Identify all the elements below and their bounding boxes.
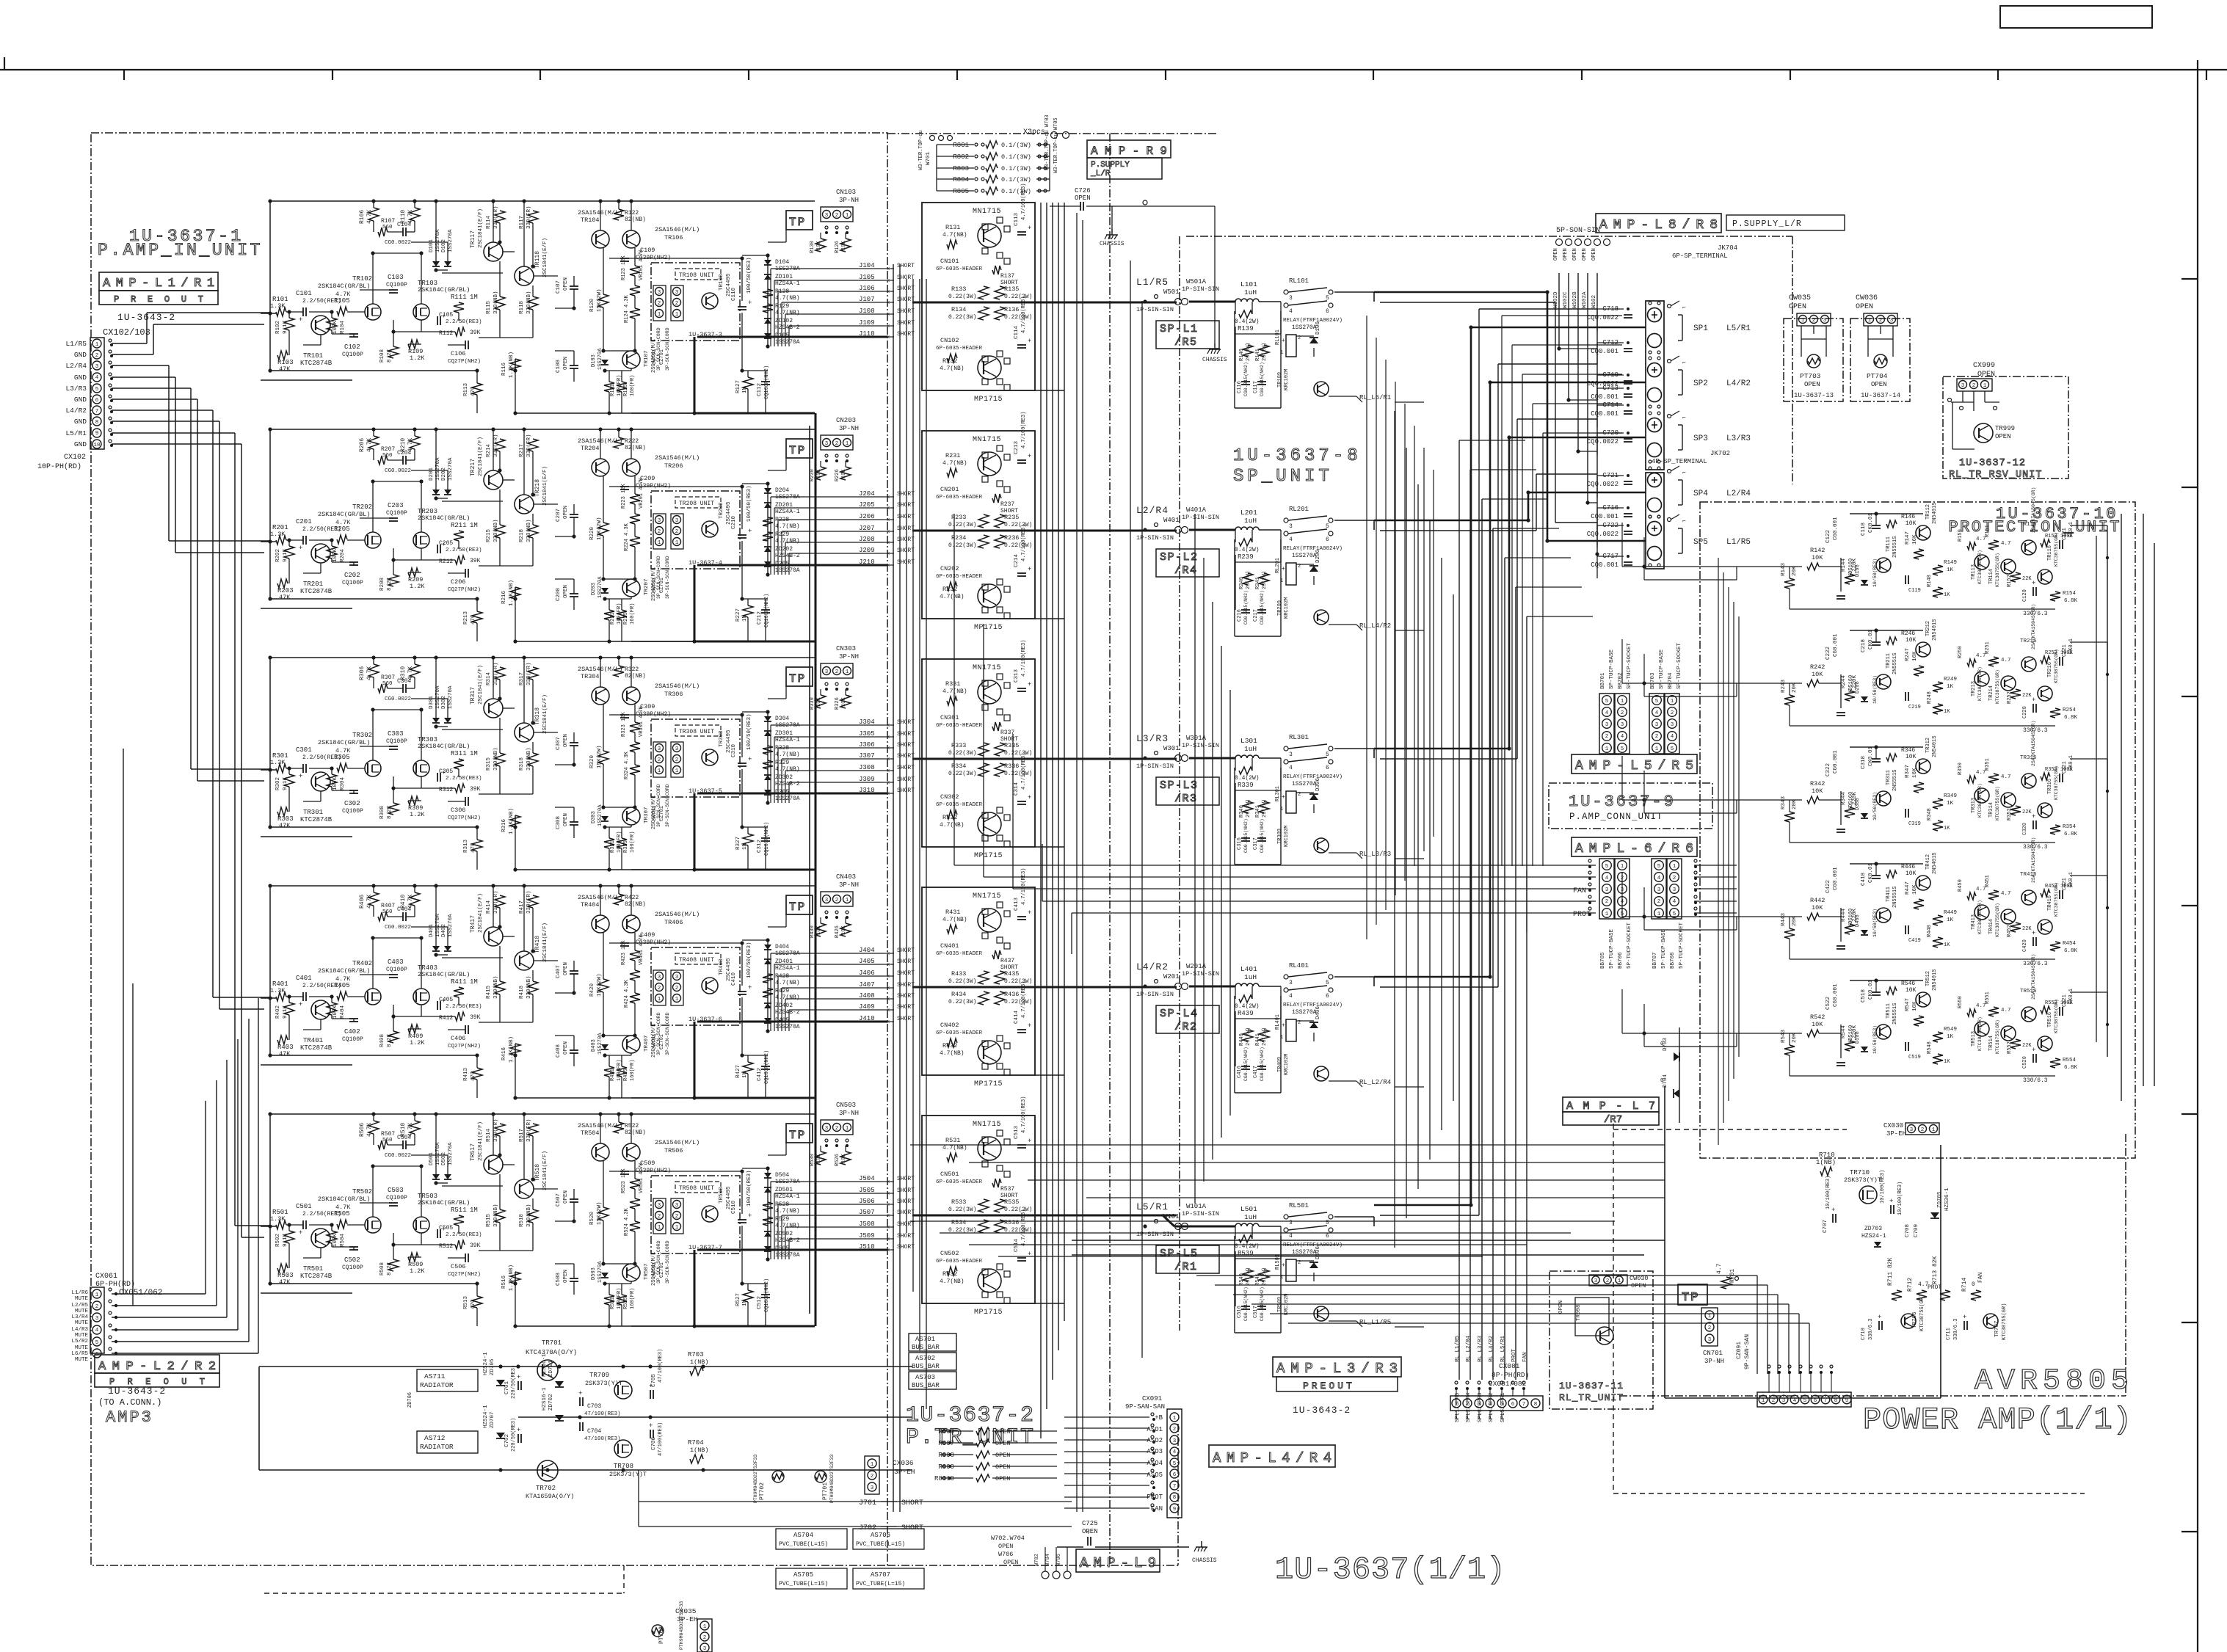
svg-text:KTC2874B: KTC2874B [300,816,333,823]
svg-text:R120: R120 [589,298,595,312]
svg-text:CW701: CW701 [652,349,658,365]
svg-text:CZ701: CZ701 [659,349,665,365]
svg-text:2: 2 [835,213,839,219]
svg-text:+: + [299,316,302,324]
svg-text:KDS160: KDS160 [1848,675,1854,694]
svg-text:⌐: ⌐ [1682,305,1686,311]
svg-text:10/100(RE3): 10/100(RE3) [1825,1176,1831,1209]
svg-text:4.7/100(RE3): 4.7/100(RE3) [1021,412,1027,448]
svg-text:1U-3637-4: 1U-3637-4 [689,559,722,567]
svg-text:L4/R2: L4/R2 [65,407,87,415]
svg-text:C701: C701 [504,1380,510,1394]
svg-text:TR217: TR217 [470,459,476,476]
svg-text:L2/R4: L2/R4 [1726,490,1751,498]
svg-text:R148: R148 [1927,575,1933,587]
svg-text:L5/R2: L5/R2 [71,1339,88,1344]
svg-text:MUTE: MUTE [75,1357,89,1363]
svg-text:CN502: CN502 [940,1250,959,1257]
svg-text:C303: C303 [388,730,404,738]
svg-text:4.7(NB): 4.7(NB) [940,365,964,372]
svg-text:R222: R222 [625,438,639,445]
svg-text:4.7/100(RE3): 4.7/100(RE3) [1021,640,1027,677]
svg-text:AS701: AS701 [915,1336,935,1343]
svg-text:1U-3637-3: 1U-3637-3 [689,331,722,338]
svg-text:R809: R809 [938,1463,954,1471]
svg-text:ZD702: ZD702 [548,1394,554,1411]
svg-text:1K: 1K [1947,684,1954,690]
svg-text:RADIATOR: RADIATOR [420,1443,454,1451]
svg-text:2: 2 [1879,318,1883,324]
svg-text:x: x [887,300,890,306]
svg-text:D402: D402 [441,924,447,937]
svg-text:C319: C319 [1908,821,1921,827]
svg-text:C118: C118 [1861,523,1867,536]
svg-text:PROT: PROT [1573,911,1591,919]
svg-text:8.2K: 8.2K [387,577,393,591]
svg-text:x: x [887,529,890,535]
svg-text:R240: R240 [1239,577,1245,589]
svg-text:330(NB): 330(NB) [526,291,532,314]
svg-text:x: x [887,962,890,968]
svg-text:KTC3875S(GR): KTC3875S(GR) [2002,1303,2008,1340]
svg-text:470: 470 [471,843,476,853]
svg-text:OPEN: OPEN [1572,248,1578,261]
svg-text:20(2W): 20(2W) [1262,571,1268,589]
svg-text:1M: 1M [742,1299,748,1306]
svg-text:KTC3875S(GR): KTC3875S(GR) [2054,532,2059,567]
svg-text:1: 1 [1708,1314,1712,1320]
svg-text:330(NB): 330(NB) [493,975,499,999]
svg-text:4: 4 [95,375,99,381]
svg-text:D208: D208 [1855,681,1861,694]
svg-text:AMP3: AMP3 [106,1408,153,1427]
svg-text:J509: J509 [859,1232,875,1240]
svg-text:+: + [2032,696,2035,704]
svg-text:BB708: BB708 [1670,952,1676,969]
svg-text:0.22(3W): 0.22(3W) [948,542,976,549]
svg-text:4: 4 [1289,1233,1293,1240]
svg-text:/R3: /R3 [1174,793,1198,805]
svg-text:R137: R137 [1000,273,1014,280]
svg-text:KTC4370A(O/Y): KTC4370A(O/Y) [526,1349,577,1356]
svg-text:R206: R206 [359,438,366,452]
svg-text:1SS270A: 1SS270A [1292,1009,1317,1016]
svg-text:2SA1546(M/L): 2SA1546(M/L) [655,1139,700,1146]
svg-text:KTC2874B: KTC2874B [300,1273,333,1280]
svg-text:9.1K: 9.1K [283,548,288,562]
svg-text:3: 3 [825,898,829,903]
svg-text:3: 3 [95,1316,99,1322]
svg-text:C121: C121 [2062,528,2068,540]
svg-text:TR513: TR513 [1971,1031,1977,1047]
svg-text:x: x [887,791,890,797]
svg-text:KTC3875S(GR): KTC3875S(GR) [1995,669,2000,704]
svg-text:1SS270A: 1SS270A [448,457,454,481]
svg-text:R418: R418 [519,986,525,999]
svg-text:1K: 1K [1947,917,1954,923]
svg-text:1(NB): 1(NB) [690,1447,709,1454]
svg-text:VR101 4.7K: VR101 4.7K [639,249,644,280]
svg-text:CZ701: CZ701 [659,806,665,821]
svg-text:x: x [887,1008,890,1014]
svg-text:x: x [887,1179,890,1185]
svg-text:470: 470 [471,386,476,396]
svg-text:FAN: FAN [1522,1352,1528,1362]
svg-text:0.22(3W): 0.22(3W) [1004,999,1032,1005]
svg-text:SP-L3: SP-L3 [1160,779,1199,792]
svg-text:R520: R520 [589,1211,595,1225]
svg-text:6: 6 [1511,1402,1515,1408]
svg-text:PTH9M04BD22TS2F33: PTH9M04BD22TS2F33 [829,1455,835,1503]
svg-text:J208: J208 [859,536,875,543]
svg-text:D505: D505 [775,1245,789,1252]
svg-text:C417: C417 [1253,1066,1259,1078]
svg-text:4.7K: 4.7K [407,210,414,224]
svg-text:6P-6035-HEADER: 6P-6035-HEADER [936,495,983,501]
svg-text:+: + [748,528,752,535]
svg-text:CG0.001: CG0.001 [1833,517,1839,540]
svg-text:R114: R114 [486,215,492,229]
svg-text:1: 1 [1868,318,1872,324]
svg-text:39K: 39K [470,1014,481,1021]
svg-text:+: + [299,773,302,780]
svg-text:16K: 16K [1912,1001,1918,1011]
svg-text:TR102: TR102 [352,275,372,283]
svg-text:330(NB): 330(NB) [526,975,532,999]
svg-text:2: 2 [675,757,679,763]
svg-text:POWER AMP(1/1): POWER AMP(1/1) [1863,1402,2132,1438]
svg-text:C207: C207 [556,509,562,522]
svg-text:TR706: TR706 [1912,1311,1918,1328]
svg-text:TR204: TR204 [581,445,600,452]
svg-text:J507: J507 [859,1209,875,1216]
svg-text:100/50(RE3): 100/50(RE3) [746,1170,752,1207]
svg-text:C212: C212 [757,611,763,625]
svg-text:R252: R252 [2007,691,2013,704]
svg-text:R307: R307 [381,674,395,681]
svg-text:KTC3875S(GR): KTC3875S(GR) [1995,786,2000,820]
svg-text:R246: R246 [1901,630,1915,637]
svg-text:R329: R329 [775,760,789,766]
svg-text:TR506: TR506 [664,1147,683,1154]
svg-text:5: 5 [1621,911,1624,917]
svg-text:1K: 1K [1944,709,1950,715]
svg-text:4: 4 [1605,876,1609,881]
svg-text:OPEN: OPEN [563,813,569,826]
svg-text:TR214: TR214 [1988,685,1994,701]
svg-text:R407: R407 [381,903,395,909]
svg-text:1: 1 [1932,1127,1936,1133]
svg-text:4: 4 [1671,734,1674,740]
svg-text:TR518: TR518 [534,1164,541,1182]
svg-text:ZD701: ZD701 [548,1360,554,1377]
svg-text:4: 4 [1289,993,1293,1000]
svg-text:5P-TUCP-BASE: 5P-TUCP-BASE [1609,928,1615,969]
svg-text:MN1715: MN1715 [973,664,1001,672]
svg-text:D104: D104 [775,259,789,266]
svg-text:+: + [1086,1529,1090,1537]
svg-text:10P-PH(RD): 10P-PH(RD) [37,462,81,471]
svg-text:R210: R210 [400,438,407,452]
svg-text:CG0.001: CG0.001 [1833,983,1839,1007]
svg-text:CG0.0022: CG0.0022 [385,1153,411,1159]
svg-text:4.7(NB): 4.7(NB) [775,766,800,773]
svg-text:20(2W): 20(2W) [1246,1267,1251,1286]
svg-text:R426: R426 [835,925,840,938]
svg-text:R404: R404 [340,1005,346,1019]
svg-text:1P-SIN-SIN: 1P-SIN-SIN [1182,970,1219,978]
svg-text:2SC1841(E/F): 2SC1841(E/F) [478,893,484,933]
svg-text:TR107: TR107 [644,350,650,367]
svg-text:10/100(RE3): 10/100(RE3) [1880,1170,1886,1204]
svg-text:CG0.0022: CG0.0022 [385,240,411,246]
svg-text:J404: J404 [859,947,875,954]
svg-text:OPEN: OPEN [1995,433,2011,440]
svg-text:R302: R302 [275,777,281,790]
svg-text:+: + [299,1229,302,1237]
svg-text:2SK184C(GR/BL): 2SK184C(GR/BL) [318,1196,370,1203]
svg-text:SP5: SP5 [1693,538,1708,547]
svg-text:330(NB): 330(NB) [526,1204,532,1227]
svg-text:2: 2 [1657,899,1661,905]
svg-text:+: + [2032,1047,2035,1054]
svg-text:1M: 1M [470,1207,478,1214]
svg-text:C517: C517 [1253,1306,1259,1318]
svg-text:CQ100P: CQ100P [342,580,363,586]
svg-text:R305: R305 [334,754,350,761]
svg-text:CG0.015(NH2): CG0.015(NH2) [1243,590,1249,625]
svg-text:C313: C313 [1014,669,1020,683]
svg-text:L6/R5: L6/R5 [71,1351,88,1357]
svg-text:C513: C513 [1014,1125,1020,1139]
svg-text:10K: 10K [1906,987,1917,994]
svg-text:330(FR): 330(FR) [526,1118,532,1142]
svg-text:C703: C703 [587,1403,601,1410]
svg-text:RL_L4/R2: RL_L4/R2 [1359,622,1391,630]
svg-text:+: + [1028,1022,1031,1030]
svg-text:1.2K: 1.2K [410,1267,425,1275]
svg-text:R350: R350 [1958,763,1963,775]
svg-text:10K: 10K [1906,520,1917,527]
svg-text:47/100(RE3): 47/100(RE3) [584,1411,621,1417]
svg-text:TR407: TR407 [644,1035,650,1052]
svg-text:R113: R113 [463,382,469,396]
svg-text:2: 2 [1173,1427,1177,1433]
svg-text:R102: R102 [275,321,281,334]
svg-text:R513: R513 [463,1295,469,1309]
svg-text:20K: 20K [1792,1033,1798,1043]
svg-text:22K: 22K [2022,926,2032,932]
svg-text:C418: C418 [1861,873,1867,886]
svg-text:CG0.015(NH2): CG0.015(NH2) [1243,1287,1249,1321]
svg-text:R424 4.3K: R424 4.3K [624,979,630,1008]
svg-text:GND: GND [74,418,87,426]
svg-text:R442: R442 [1810,897,1825,904]
svg-text:3: 3 [658,290,661,296]
svg-text:2: 2 [658,986,661,991]
svg-text:OPEN: OPEN [995,1463,1010,1471]
svg-text:W706: W706 [998,1551,1013,1558]
svg-text:1.3K(NB): 1.3K(NB) [509,808,515,834]
svg-text:1: 1 [658,997,661,1003]
svg-text:PREOUT: PREOUT [1303,1380,1355,1391]
svg-text:OPEN: OPEN [1558,1300,1564,1314]
svg-text:1U-3637-2: 1U-3637-2 [906,1403,1035,1428]
svg-text:TR216: TR216 [2047,662,2053,677]
svg-text:W3-TER.TOP-cu W705: W3-TER.TOP-cu W705 [1053,117,1059,173]
svg-text:1K: 1K [1947,567,1954,573]
svg-text:1M: 1M [470,522,478,529]
svg-text:R111: R111 [451,294,467,301]
svg-text:R502: R502 [275,1234,281,1247]
svg-text:/R7: /R7 [1604,1114,1622,1126]
svg-text:HZS4A-1: HZS4A-1 [775,1193,800,1200]
svg-text:6: 6 [95,398,99,404]
svg-text:PT704: PT704 [1867,372,1888,380]
svg-text:R506: R506 [359,1123,366,1137]
svg-text:RL_L1/R5: RL_L1/R5 [1359,1319,1391,1326]
svg-text:D203: D203 [591,583,597,595]
svg-text:SP-L1: SP-L1 [1160,323,1199,335]
svg-text:MN1715: MN1715 [973,1121,1001,1129]
svg-text:⌐: ⌐ [1682,518,1686,525]
svg-text:D108: D108 [1855,564,1861,577]
svg-text:P.TR_UNIT: P.TR_UNIT [906,1425,1035,1450]
svg-text:CG0.015(NH2): CG0.015(NH2) [1260,818,1265,853]
svg-text:D405: D405 [775,1017,789,1024]
svg-text:4.7K: 4.7K [335,975,351,983]
svg-text:CQ100P: CQ100P [342,352,363,358]
svg-text:R422: R422 [625,895,639,901]
svg-text:8.2K: 8.2K [387,805,393,819]
svg-text:CN402: CN402 [940,1022,959,1029]
svg-text:AMP-L7: AMP-L7 [1566,1100,1665,1113]
svg-text:20(2W): 20(2W) [1262,1267,1268,1286]
svg-text:R446: R446 [1901,864,1915,870]
svg-text:BB703: BB703 [1650,672,1656,689]
svg-text:R552: R552 [2007,1041,2013,1054]
svg-text:R433: R433 [951,970,966,978]
svg-text:1SS270A: 1SS270A [448,685,454,709]
svg-text:2SA/KTA1504S(GR): 2SA/KTA1504S(GR) [2031,954,2036,1000]
svg-text:4.7K: 4.7K [407,1123,414,1137]
svg-text:OPEN: OPEN [1871,381,1887,388]
svg-text:1uH: 1uH [1244,1213,1257,1221]
svg-text:1K: 1K [1947,1034,1954,1040]
svg-text:R410: R410 [400,895,407,909]
svg-text:2SK184C(GR/BL): 2SK184C(GR/BL) [318,283,370,290]
svg-text:C116: C116 [1237,381,1243,393]
svg-text:OPEN: OPEN [1003,1559,1018,1566]
svg-text:16K: 16K [1912,651,1918,661]
svg-text:9: 9 [95,431,99,437]
svg-text:J206: J206 [859,513,875,520]
svg-text:PT703: PT703 [1800,372,1821,380]
svg-text:D401: D401 [429,923,435,937]
svg-text:TP: TP [1682,1291,1699,1305]
svg-text:W501A: W501A [1186,278,1207,285]
svg-text:CK0.1: CK0.1 [2068,522,2074,537]
svg-text:C414: C414 [1014,1010,1020,1024]
svg-text:10/50(RE3): 10/50(RE3) [1872,792,1878,820]
svg-text:SP-L2: SP-L2 [1160,551,1199,564]
svg-text:MP1715: MP1715 [974,1309,1003,1317]
svg-text:1uH: 1uH [1244,973,1257,981]
svg-text:0.22(3W): 0.22(3W) [948,771,976,777]
svg-text:+: + [1963,1314,1966,1321]
svg-text:20(2W): 20(2W) [1262,1027,1268,1046]
svg-text:x: x [887,324,890,330]
svg-text:2: 2 [835,898,839,903]
svg-text:R804: R804 [953,176,969,183]
svg-text:4.7K: 4.7K [366,438,373,452]
svg-text:CN701: CN701 [1703,1350,1723,1357]
svg-text:22K: 22K [2022,693,2032,699]
svg-text:4.7(NB): 4.7(NB) [942,232,967,239]
svg-text:RL301: RL301 [1289,734,1309,741]
svg-text:C302: C302 [344,800,360,807]
svg-text:4.7K: 4.7K [366,895,373,909]
svg-text:R505: R505 [334,1210,350,1218]
svg-text:OPEN: OPEN [1977,371,1995,379]
svg-text:C210: C210 [731,515,737,529]
svg-text:2SC1841(E/F): 2SC1841(E/F) [542,694,548,734]
svg-text:AMP-L9: AMP-L9 [1080,1555,1161,1571]
svg-text:C520: C520 [2022,1056,2028,1069]
svg-text:D301: D301 [429,695,435,709]
svg-text:4.7(NB): 4.7(NB) [940,1278,964,1285]
svg-text:L4/R2: L4/R2 [1726,379,1751,388]
svg-text:20(2W): 20(2W) [1246,343,1251,361]
svg-text:TR213: TR213 [1971,681,1977,696]
svg-text:+: + [1028,909,1031,917]
svg-text:TR116: TR116 [2047,545,2053,561]
svg-text:2: 2 [675,301,679,307]
svg-text:W401A: W401A [1186,506,1207,514]
svg-text:C316: C316 [1237,837,1243,850]
svg-text:R521: R521 [610,1297,616,1309]
svg-text:ZD705: ZD705 [1937,1191,1943,1208]
svg-text:3P-NH: 3P-NH [839,653,859,661]
svg-text:TR411: TR411 [1886,887,1892,902]
svg-text:C220: C220 [2022,706,2028,718]
svg-text:GND: GND [74,374,87,382]
svg-text:D106: D106 [1315,321,1321,335]
svg-text:R406: R406 [359,895,366,909]
svg-text:R237: R237 [1000,501,1014,508]
svg-text:TR701: TR701 [542,1339,562,1347]
svg-text:MUTE: MUTE [75,1345,89,1351]
svg-text:R522: R522 [625,1123,639,1129]
svg-text:4.7(NB): 4.7(NB) [942,1145,967,1151]
svg-text:R243: R243 [1781,679,1787,693]
svg-text:C702: C702 [504,1434,510,1447]
svg-text:3: 3 [658,975,661,980]
svg-text:J308: J308 [859,764,875,771]
svg-text:20K: 20K [1792,683,1798,693]
svg-text:TR412: TR412 [1925,854,1931,870]
svg-text:OPEN: OPEN [995,1475,1010,1482]
svg-text:KTC3875S(GR): KTC3875S(GR) [2054,649,2059,683]
svg-text:D308: D308 [1855,798,1861,810]
svg-text:C407: C407 [556,965,562,978]
svg-text:2N5551S: 2N5551S [1892,536,1898,558]
svg-text:3P-EH: 3P-EH [1886,1130,1906,1138]
svg-text:L2/R4: L2/R4 [1136,505,1169,516]
svg-text:0.1/(3W): 0.1/(3W) [1001,165,1031,172]
svg-text:C206: C206 [451,578,465,586]
svg-text:1.2K: 1.2K [410,1039,425,1047]
